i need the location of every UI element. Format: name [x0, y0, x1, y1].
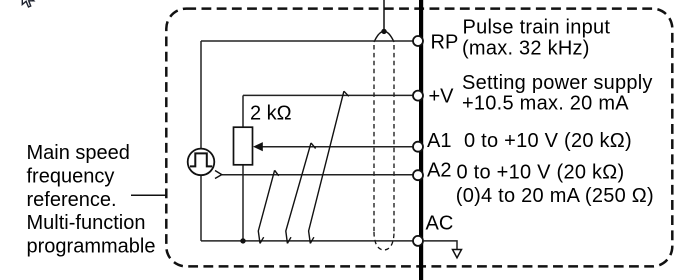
mouse cursor — [22, 0, 34, 7]
svg-text:RP: RP — [431, 32, 459, 54]
svg-text:AC: AC — [426, 213, 454, 235]
twisted-pair mark D3 — [309, 91, 349, 243]
A2 source open arrowhead — [215, 171, 222, 179]
caption pointer line — [131, 194, 167, 196]
terminal AC — [413, 236, 423, 246]
svg-text:(max. 32 kHz): (max. 32 kHz) — [462, 37, 590, 59]
ground symbol — [453, 250, 462, 258]
svg-text:reference.: reference. — [27, 189, 117, 211]
dashed enclosure border — [166, 9, 672, 267]
wire A2 horizontal — [221, 174, 414, 176]
wire bottom common — [201, 240, 414, 242]
AC ground stub wire — [423, 241, 457, 250]
wire left vertical lower — [200, 175, 202, 241]
svg-text:2 kΩ: 2 kΩ — [250, 102, 292, 124]
svg-text:0 to +10 V (20 kΩ): 0 to +10 V (20 kΩ) — [457, 162, 625, 184]
shield top arc — [374, 31, 394, 42]
svg-text:Setting power supply: Setting power supply — [462, 72, 653, 94]
svg-text:0 to +10 V (20 kΩ): 0 to +10 V (20 kΩ) — [464, 130, 632, 152]
left caption text — [27, 142, 156, 258]
resistor lead bottom — [242, 165, 244, 241]
svg-text:Multi-function: Multi-function — [27, 212, 146, 234]
svg-text:A1: A1 — [427, 130, 451, 152]
shield drain wire (top) — [383, 0, 385, 30]
terminal strip thick line — [419, 0, 423, 280]
wire +V drop to resistor — [242, 95, 244, 127]
terminal A1 — [413, 142, 423, 152]
twisted-pair mark D2 — [286, 143, 316, 244]
terminal A2 — [413, 170, 423, 180]
resistor R (2 kOhm potentiometer body) — [234, 127, 253, 165]
svg-text:(0)4 to 20 mA (250 Ω): (0)4 to 20 mA (250 Ω) — [456, 185, 654, 207]
wiper arrowhead on resistor — [253, 142, 263, 151]
shield dashed line left — [373, 45, 375, 232]
wire A1 horizontal — [255, 146, 414, 148]
junction dot — [240, 238, 245, 243]
terminal +V — [413, 91, 423, 101]
wire RP horizontal — [201, 40, 414, 42]
terminal RP — [413, 36, 423, 46]
shield dashed bottom arc — [374, 232, 394, 250]
svg-text:Main speed: Main speed — [27, 142, 130, 164]
svg-text:Pulse train input: Pulse train input — [463, 16, 611, 38]
shield dashed line right — [393, 45, 395, 232]
shield junction dot — [381, 29, 386, 34]
twisted-pair mark D1 — [258, 170, 278, 243]
wire +V horizontal — [243, 94, 414, 96]
svg-text:+10.5 max. 20 mA: +10.5 max. 20 mA — [462, 93, 629, 115]
wire left vertical upper — [200, 41, 202, 149]
svg-text:A2: A2 — [427, 160, 451, 182]
pulse source circle — [188, 149, 215, 176]
svg-text:programmable: programmable — [27, 236, 156, 258]
svg-text:+V: +V — [429, 86, 455, 108]
svg-text:frequency: frequency — [27, 165, 115, 187]
pulse waveform glyph — [190, 153, 212, 166]
